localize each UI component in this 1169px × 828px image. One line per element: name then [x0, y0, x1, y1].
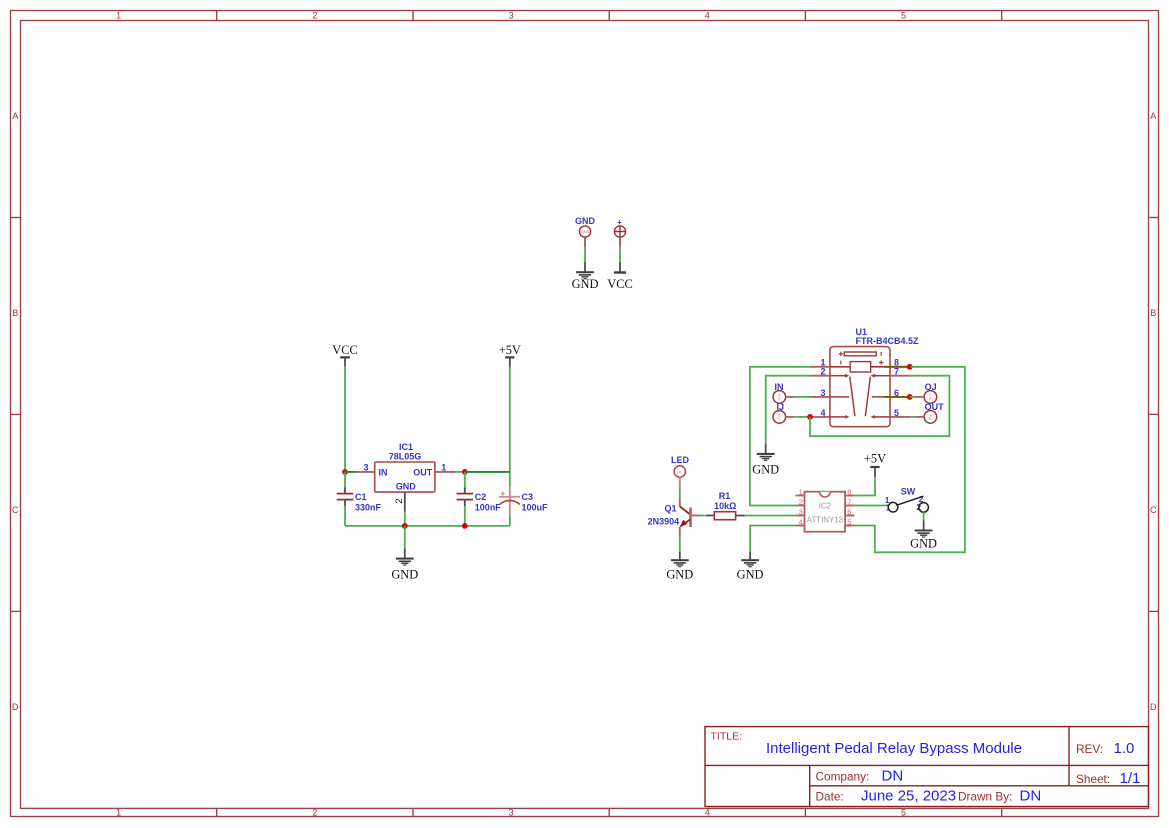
- connector OUT jack: [924, 402, 944, 423]
- wire relay pin2 to ground: [766, 376, 810, 444]
- svg-text:2: 2: [820, 367, 825, 377]
- wire pin6 to OJ: [910, 396, 915, 398]
- resistor R1 10k: [706, 491, 745, 520]
- svg-text:1: 1: [116, 807, 121, 817]
- frame column labels top: [116, 10, 906, 20]
- connector J-VCC (VCC pin header): [614, 218, 625, 237]
- svg-text:LED: LED: [671, 455, 690, 465]
- node junction relay pin8: [907, 364, 913, 370]
- svg-text:C2: C2: [475, 492, 487, 502]
- svg-text:FTR-B4CB4.5Z: FTR-B4CB4.5Z: [856, 336, 920, 346]
- capacitor C1: [337, 487, 382, 512]
- wire IJ to relay pin4: [786, 416, 795, 418]
- connector J-GND (GND pin header): [575, 216, 596, 237]
- svg-text:SW: SW: [901, 486, 916, 496]
- svg-text:1: 1: [799, 488, 803, 497]
- svg-text:4: 4: [705, 807, 710, 817]
- node junction OUT / C2: [462, 469, 468, 475]
- capacitor C2: [457, 487, 502, 512]
- svg-text:5: 5: [847, 518, 851, 527]
- relay U1 body: [830, 347, 890, 427]
- pin 2 of IC1 (GND): [404, 492, 406, 511]
- svg-text:B: B: [12, 308, 18, 318]
- wire Q1 emitter to ground: [679, 537, 681, 552]
- transistor Q1 2N3904: [648, 498, 692, 537]
- svg-text:2: 2: [312, 807, 317, 817]
- svg-text:pin: pin: [678, 470, 683, 474]
- svg-text:GND: GND: [572, 277, 599, 291]
- svg-text:GND: GND: [581, 230, 590, 234]
- supply symbol VCC top: [607, 262, 632, 291]
- svg-text:D: D: [1150, 702, 1157, 712]
- svg-text:4: 4: [820, 408, 825, 418]
- wire C2 upper: [464, 472, 466, 487]
- pin 3 of IC1: [356, 471, 375, 473]
- svg-text:3: 3: [799, 508, 803, 517]
- wire IC2 pin4 to ground: [750, 526, 795, 552]
- svg-text:Drawn By:: Drawn By:: [958, 790, 1012, 804]
- wire +5V to IC2 pin8: [855, 477, 875, 495]
- frame row labels left: [12, 111, 19, 712]
- svg-text:+5V: +5V: [864, 452, 886, 466]
- node junction relay pin6: [907, 394, 913, 400]
- svg-text:2: 2: [394, 498, 405, 503]
- pin base of Q1: [692, 515, 700, 517]
- svg-text:C1: C1: [355, 492, 367, 502]
- svg-text:GND: GND: [666, 568, 693, 582]
- svg-text:OUT: OUT: [413, 467, 433, 477]
- wire IN to relay pin3: [786, 396, 795, 398]
- relay U1 contact arrows: [845, 374, 875, 419]
- svg-text:A: A: [12, 111, 18, 121]
- svg-text:IN: IN: [379, 467, 388, 477]
- svg-text:3: 3: [509, 10, 514, 20]
- supply symbol +5V (IC2): [864, 452, 886, 478]
- ground symbol relay GND: [752, 444, 779, 477]
- wire pin3 to VCC: [345, 471, 356, 473]
- pin of J-GND: [584, 237, 586, 246]
- microcontroller IC2 ATTINY13 body: [805, 492, 846, 532]
- frame row ticks left: [11, 218, 21, 612]
- svg-text:4: 4: [799, 518, 803, 527]
- wire C2 lower: [464, 506, 466, 526]
- svg-text:D: D: [12, 702, 19, 712]
- svg-text:2N3904: 2N3904: [648, 517, 680, 527]
- svg-text:GND: GND: [910, 536, 937, 550]
- ground symbol regulator GND: [391, 548, 418, 581]
- relay U1 polarity marks: [839, 352, 884, 365]
- node junction relay pin4: [807, 414, 813, 420]
- svg-text:B: B: [1150, 308, 1156, 318]
- svg-text:7: 7: [847, 498, 851, 507]
- svg-text:C3: C3: [522, 492, 534, 502]
- wire pin4 loop to pin7: [810, 376, 949, 437]
- svg-text:10kΩ: 10kΩ: [714, 501, 736, 511]
- switch SW: [885, 486, 929, 512]
- svg-text:ATTINY13: ATTINY13: [807, 515, 844, 524]
- wire relay pin8 outer loop to IC2 pin5: [855, 367, 965, 553]
- svg-text:5: 5: [901, 807, 906, 817]
- svg-text:Intelligent Pedal Relay Bypass: Intelligent Pedal Relay Bypass Module: [766, 740, 1022, 757]
- svg-text:A: A: [1150, 111, 1156, 121]
- supply symbol VCC (regulator input): [332, 343, 357, 367]
- relay U1 coil outline: [844, 352, 876, 372]
- svg-text:5: 5: [894, 408, 899, 418]
- svg-text:1: 1: [441, 463, 446, 473]
- svg-text:7: 7: [894, 367, 899, 377]
- connector IN jack: [773, 382, 786, 403]
- svg-text:2: 2: [799, 498, 803, 507]
- IC2 pin stubs right: [846, 496, 855, 526]
- connector LED: [671, 455, 690, 477]
- wire GND net: [584, 247, 586, 263]
- wire overlap pin 6 (olive): [884, 396, 910, 398]
- frame column labels bottom: [116, 807, 906, 817]
- wire VCC net: [619, 247, 621, 263]
- pin of J-VCC: [619, 237, 621, 246]
- polarized capacitor C3: [499, 487, 548, 516]
- wire base to R1: [699, 515, 705, 517]
- relay U1 pin numbers: [820, 357, 825, 418]
- svg-text:GND: GND: [737, 568, 764, 582]
- svg-text:3: 3: [820, 388, 825, 398]
- svg-text:R1: R1: [719, 491, 731, 501]
- connector IJ jack: [773, 402, 786, 423]
- svg-text:78L05G: 78L05G: [389, 451, 422, 461]
- svg-text:1/1: 1/1: [1120, 770, 1141, 787]
- svg-text:Date:: Date:: [816, 790, 844, 804]
- frame row labels right: [1150, 111, 1157, 712]
- svg-text:2: 2: [312, 10, 317, 20]
- IC2 pin numbers: [799, 488, 803, 527]
- ground symbol SW GND: [910, 520, 937, 550]
- svg-text:C: C: [1150, 505, 1157, 515]
- ground symbol Q1 GND: [666, 552, 693, 582]
- node junction rail / C2: [462, 523, 468, 529]
- wire LED to Q1 collector: [679, 487, 681, 498]
- wire pin5 to OUT: [910, 416, 916, 418]
- relay U1 internal coil wire: [830, 366, 890, 368]
- svg-text:6: 6: [894, 388, 899, 398]
- wire SW to ground: [923, 512, 925, 520]
- svg-text:GND: GND: [391, 568, 418, 582]
- svg-text:VCC: VCC: [332, 343, 357, 357]
- node junction rail / IC1 gnd: [402, 523, 408, 529]
- pin of LED: [679, 477, 681, 486]
- svg-text:DN: DN: [882, 768, 904, 785]
- ground symbol IC2 GND: [737, 552, 764, 582]
- svg-text:REV:: REV:: [1076, 742, 1103, 756]
- svg-text:5: 5: [901, 10, 906, 20]
- svg-text:1.0: 1.0: [1114, 740, 1135, 757]
- svg-text:June 25, 2023: June 25, 2023: [861, 788, 956, 805]
- wire IC2 pin7 to switch: [855, 505, 889, 507]
- relay U1 contact lines: [830, 376, 890, 417]
- wire C3 lower: [509, 516, 511, 526]
- wire OUT to +5V: [465, 471, 510, 473]
- svg-text:C: C: [12, 505, 19, 515]
- frame column ticks bottom: [217, 808, 1002, 816]
- ground symbol GND top: [572, 262, 599, 291]
- wire IC1 gnd pin down: [404, 512, 406, 526]
- svg-text:6: 6: [847, 508, 851, 517]
- title block border: [705, 727, 1149, 807]
- voltage regulator IC1 78L05G: [375, 442, 435, 492]
- wire pin1 to +5V node: [456, 471, 465, 473]
- svg-text:VCC: VCC: [607, 277, 632, 291]
- svg-text:TITLE:: TITLE:: [711, 731, 743, 743]
- svg-text:DN: DN: [1020, 788, 1042, 805]
- svg-text:3: 3: [509, 807, 514, 817]
- wire overlap pin 8 (olive): [884, 366, 910, 368]
- pin 1 of IC1: [435, 471, 456, 473]
- wire ground rail: [345, 525, 510, 527]
- svg-text:IC2: IC2: [819, 502, 831, 511]
- svg-text:100uF: 100uF: [522, 502, 549, 512]
- relay U1 pin stubs left: [809, 367, 830, 417]
- svg-text:GND: GND: [575, 216, 596, 226]
- frame row ticks right: [1149, 218, 1159, 612]
- connector OJ jack: [924, 382, 937, 403]
- wire rail to ground: [404, 526, 406, 549]
- svg-text:8: 8: [847, 488, 851, 497]
- svg-text:100nF: 100nF: [475, 502, 502, 512]
- relay U1 pin stubs right: [890, 367, 910, 417]
- frame column ticks top: [217, 11, 1002, 21]
- wire +5V vertical: [509, 367, 511, 488]
- wire C1 upper: [344, 472, 346, 487]
- wire VCC vertical: [344, 367, 346, 472]
- supply symbol +5V (regulator output): [499, 343, 521, 367]
- svg-text:GND: GND: [396, 482, 417, 492]
- wire R1 to IC2 pin3: [745, 515, 796, 517]
- wire relay pin1 to IC2 pin2: [750, 367, 810, 506]
- svg-text:3: 3: [363, 463, 368, 473]
- svg-text:4: 4: [705, 10, 710, 20]
- svg-text:Q1: Q1: [665, 504, 677, 514]
- svg-text:+5V: +5V: [499, 343, 521, 357]
- svg-text:GND: GND: [752, 462, 779, 476]
- node junction VCC / C1: [342, 469, 348, 475]
- relay U1 armatures: [850, 377, 871, 417]
- svg-text:Sheet:: Sheet:: [1076, 772, 1110, 786]
- IC2 pin stubs left: [795, 496, 804, 526]
- svg-text:330nF: 330nF: [355, 502, 382, 512]
- wire C1 lower: [344, 506, 346, 526]
- svg-text:Company:: Company:: [816, 770, 870, 784]
- svg-text:1: 1: [116, 10, 121, 20]
